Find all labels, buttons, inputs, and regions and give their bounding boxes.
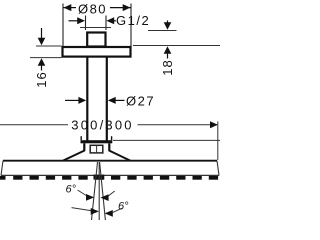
dimension 18: down arrow <box>164 21 172 30</box>
shower plate right edge <box>217 161 219 176</box>
dimension D80: extension line left <box>62 4 64 47</box>
svg-text:6°: 6° <box>118 201 129 213</box>
dimension 18: flange-top extension line <box>133 45 220 47</box>
svg-text:16: 16 <box>34 71 49 87</box>
svg-text:G1/2: G1/2 <box>116 13 150 28</box>
dimension 18: top reference line <box>148 30 177 32</box>
mount cap left tick <box>80 136 82 140</box>
mount body left wall <box>83 143 85 151</box>
svg-text:6°: 6° <box>66 184 77 196</box>
shower plate bottom edge <box>1 174 219 176</box>
pipe left edge <box>86 58 88 142</box>
upper-left arrow <box>86 194 94 201</box>
shower plate left edge <box>1 161 3 176</box>
centre nozzle cluster <box>94 175 105 180</box>
dimension D27: right arrow <box>108 97 125 104</box>
spray centre line <box>98 162 100 220</box>
dimension 16: top reference line <box>36 45 62 47</box>
lower-left arrow <box>91 208 99 215</box>
dimension D80: extension line right <box>130 4 132 47</box>
trapezoid right slant <box>109 150 130 160</box>
shower plate top edge <box>3 160 217 162</box>
dimension G1/2: left arrow <box>69 17 86 24</box>
dimension 300/300: extension line right <box>217 122 219 161</box>
svg-text:Ø27: Ø27 <box>126 94 155 109</box>
upper-right arrow <box>100 194 108 201</box>
dimension 16: up arrow <box>38 58 46 70</box>
dimension G1/2: right arrow <box>106 17 116 24</box>
pipe right edge <box>106 58 108 142</box>
spray left line <box>92 162 98 220</box>
nozzle dashes <box>0 176 218 180</box>
mount inner centre line <box>96 146 98 153</box>
spray right line <box>100 162 106 220</box>
dimension D80: dim line + arrows <box>64 4 131 11</box>
mount cap bar <box>81 140 113 143</box>
dimension 18: up arrow <box>164 46 172 58</box>
mount body right wall <box>108 143 110 151</box>
dimension G1/2: extension line left <box>85 16 87 31</box>
cap-level extension line to right edge <box>113 139 220 141</box>
lower-right arrow <box>105 210 113 217</box>
dimension 16: down arrow <box>38 28 46 45</box>
svg-text:Ø80: Ø80 <box>78 2 107 17</box>
flange plate <box>63 47 131 57</box>
trapezoid left slant <box>63 150 85 160</box>
upper-right leader <box>108 191 115 196</box>
dimension 16: bottom reference line <box>30 57 62 59</box>
mount inner joint box <box>90 145 103 153</box>
dimension 300/300: dim line right part + arrow <box>138 121 218 128</box>
lower-left leader <box>72 208 92 211</box>
dimension 300/300: dim line left part <box>0 124 68 126</box>
dimension G1/2: extension line right <box>105 16 107 31</box>
upper-left leader <box>78 190 88 196</box>
ceiling line <box>80 27 111 29</box>
mount cap right tick <box>111 136 113 140</box>
lower-right leader <box>112 208 122 213</box>
svg-text:300/300: 300/300 <box>71 117 133 132</box>
svg-text:18: 18 <box>160 59 175 75</box>
dimension D27: left arrow <box>65 97 86 104</box>
pipe stub G1/2 <box>87 33 105 47</box>
